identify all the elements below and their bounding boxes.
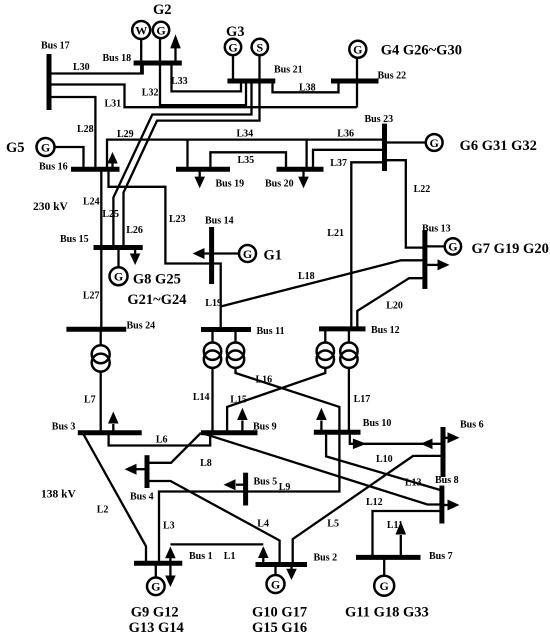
svg-text:L22: L22 xyxy=(414,184,431,195)
svg-text:G10 G17: G10 G17 xyxy=(252,605,307,621)
svg-text:G: G xyxy=(228,40,237,54)
svg-text:L24: L24 xyxy=(83,197,100,208)
svg-text:G6 G31 G32: G6 G31 G32 xyxy=(460,138,537,154)
svg-text:L14: L14 xyxy=(193,392,210,403)
svg-text:G13 G14: G13 G14 xyxy=(129,620,184,636)
svg-text:L31: L31 xyxy=(105,99,122,110)
svg-text:G: G xyxy=(353,43,362,57)
svg-text:W: W xyxy=(135,23,147,37)
svg-text:L32: L32 xyxy=(142,88,159,99)
svg-text:Bus 3: Bus 3 xyxy=(52,422,76,433)
svg-text:Bus 8: Bus 8 xyxy=(435,475,459,486)
svg-text:G1: G1 xyxy=(264,248,283,264)
svg-text:230 kV: 230 kV xyxy=(33,201,69,213)
svg-text:Bus 2: Bus 2 xyxy=(314,553,338,564)
svg-text:L28: L28 xyxy=(77,124,94,135)
svg-text:G: G xyxy=(156,23,165,37)
svg-text:L33: L33 xyxy=(171,76,188,87)
svg-text:Bus 6: Bus 6 xyxy=(460,420,484,431)
svg-text:L10: L10 xyxy=(376,454,393,465)
svg-text:G: G xyxy=(430,136,439,150)
svg-text:Bus 17: Bus 17 xyxy=(41,41,70,52)
svg-text:Bus 18: Bus 18 xyxy=(103,53,132,64)
svg-text:L8: L8 xyxy=(200,458,212,469)
svg-text:L1: L1 xyxy=(224,551,236,562)
svg-text:G: G xyxy=(41,140,50,154)
svg-text:L20: L20 xyxy=(386,301,403,312)
svg-text:L37: L37 xyxy=(330,158,347,169)
svg-text:G: G xyxy=(380,579,389,593)
svg-text:138 kV: 138 kV xyxy=(41,489,77,501)
svg-text:Bus 24: Bus 24 xyxy=(127,321,156,332)
svg-text:L13: L13 xyxy=(405,478,422,489)
svg-text:Bus 14: Bus 14 xyxy=(205,216,234,227)
svg-text:Bus 22: Bus 22 xyxy=(378,71,407,82)
svg-text:G: G xyxy=(243,247,252,261)
svg-text:Bus 15: Bus 15 xyxy=(60,234,89,245)
svg-text:L34: L34 xyxy=(237,129,254,140)
svg-text:L5: L5 xyxy=(327,518,339,529)
svg-text:L21: L21 xyxy=(327,228,344,239)
svg-text:Bus 20: Bus 20 xyxy=(265,179,294,190)
svg-text:Bus 5: Bus 5 xyxy=(254,477,278,488)
svg-text:Bus 13: Bus 13 xyxy=(422,224,451,235)
svg-text:G21~G24: G21~G24 xyxy=(127,292,186,308)
svg-text:L27: L27 xyxy=(83,291,100,302)
svg-text:G11 G18 G33: G11 G18 G33 xyxy=(345,605,429,621)
svg-text:G5: G5 xyxy=(6,140,25,156)
svg-text:Bus 19: Bus 19 xyxy=(216,179,245,190)
svg-text:L3: L3 xyxy=(163,521,175,532)
svg-text:L18: L18 xyxy=(298,271,315,282)
svg-text:Bus 4: Bus 4 xyxy=(130,492,154,503)
svg-text:G: G xyxy=(151,580,160,594)
svg-text:Bus 9: Bus 9 xyxy=(253,421,277,432)
svg-text:L29: L29 xyxy=(117,129,134,140)
svg-text:L12: L12 xyxy=(366,497,383,508)
svg-text:L4: L4 xyxy=(257,518,269,529)
svg-text:L9: L9 xyxy=(279,482,291,493)
svg-text:L2: L2 xyxy=(97,505,109,516)
svg-text:Bus 21: Bus 21 xyxy=(274,65,303,76)
svg-text:L15: L15 xyxy=(230,395,247,406)
svg-text:L19: L19 xyxy=(205,298,222,309)
svg-text:L30: L30 xyxy=(73,62,90,73)
svg-text:L26: L26 xyxy=(126,225,143,236)
svg-text:Bus 7: Bus 7 xyxy=(429,551,453,562)
svg-text:Bus 16: Bus 16 xyxy=(39,162,68,173)
svg-text:G: G xyxy=(448,240,457,254)
svg-text:L16: L16 xyxy=(256,374,273,385)
svg-text:Bus 1: Bus 1 xyxy=(189,551,213,562)
svg-text:L7: L7 xyxy=(84,395,96,406)
svg-text:L23: L23 xyxy=(169,214,186,225)
svg-text:Bus 23: Bus 23 xyxy=(365,114,394,125)
svg-text:G8 G25: G8 G25 xyxy=(133,271,181,287)
svg-text:L35: L35 xyxy=(238,155,255,166)
svg-text:Bus 10: Bus 10 xyxy=(363,418,392,429)
svg-text:G: G xyxy=(271,577,280,591)
svg-text:G4 G26~G30: G4 G26~G30 xyxy=(381,43,462,59)
svg-text:L36: L36 xyxy=(337,129,354,140)
svg-text:Bus 12: Bus 12 xyxy=(371,325,400,336)
svg-text:L17: L17 xyxy=(354,394,371,405)
svg-text:Bus 11: Bus 11 xyxy=(257,326,285,337)
svg-text:G3: G3 xyxy=(226,24,245,40)
svg-text:G15 G16: G15 G16 xyxy=(252,620,307,636)
svg-text:L11: L11 xyxy=(387,520,403,531)
svg-text:S: S xyxy=(256,40,263,54)
svg-text:L25: L25 xyxy=(102,209,119,220)
svg-text:G2: G2 xyxy=(153,2,172,18)
svg-text:L38: L38 xyxy=(299,83,316,94)
svg-text:G7 G19 G20: G7 G19 G20 xyxy=(472,241,549,257)
svg-text:G9 G12: G9 G12 xyxy=(131,605,179,621)
svg-text:L6: L6 xyxy=(156,435,168,446)
svg-text:G: G xyxy=(114,270,123,284)
